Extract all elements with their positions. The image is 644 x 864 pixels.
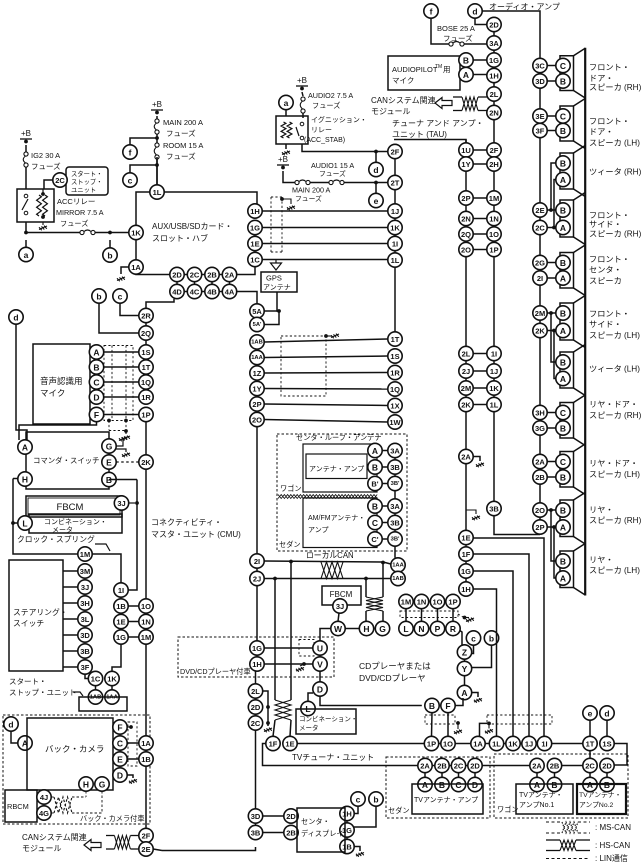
svg-text:3M: 3M <box>80 567 90 576</box>
wire E-1B <box>127 758 139 760</box>
node c CD <box>466 631 480 645</box>
svg-text:2A: 2A <box>535 458 545 467</box>
svg-text:2C: 2C <box>585 762 595 771</box>
svg-text:リヤ・ドア・: リヤ・ドア・ <box>589 400 638 409</box>
junction bc shield <box>129 725 133 729</box>
connector 2A <box>533 454 547 468</box>
svg-text:2D: 2D <box>602 762 612 771</box>
connector D <box>89 390 103 404</box>
pin A speaker <box>556 271 570 285</box>
node b mid <box>92 289 106 303</box>
connector 3B <box>388 460 402 474</box>
svg-text:1T: 1T <box>391 335 400 344</box>
junction c-tap <box>155 163 159 167</box>
node d <box>369 162 383 176</box>
pin C back camera <box>113 736 127 750</box>
connector 2E <box>533 203 547 217</box>
connector 1A TV row <box>471 736 485 750</box>
svg-text:3L: 3L <box>81 615 90 624</box>
node d TV <box>600 706 614 720</box>
wire speaker harness vertical <box>539 73 541 74</box>
junction TV shield <box>456 721 460 725</box>
fuse BOSE 25A <box>449 42 453 46</box>
connector 2C <box>533 220 547 234</box>
svg-text:スピーカ (LH): スピーカ (LH) <box>589 139 640 148</box>
wire 2A gnd <box>473 457 480 462</box>
leader start-stop <box>73 692 83 696</box>
connector 1M <box>487 191 501 205</box>
connector 1S TV row <box>600 736 614 750</box>
wire 2K long vertical <box>145 469 147 828</box>
wire A gnd <box>472 693 479 698</box>
svg-text:3B': 3B' <box>391 481 400 487</box>
connector 1AA <box>391 558 405 572</box>
connector 2Q <box>139 326 153 340</box>
svg-text:1X: 1X <box>390 402 399 411</box>
svg-text:2I: 2I <box>537 274 543 283</box>
svg-text:B: B <box>372 502 378 512</box>
shield dashed box CD <box>400 611 458 618</box>
wire c to 1H <box>354 806 358 814</box>
wire shield <box>125 421 127 432</box>
ignition relay coil <box>281 122 286 138</box>
svg-text:2P: 2P <box>461 194 470 203</box>
svg-text:a: a <box>24 250 29 260</box>
connector 3H <box>533 405 547 419</box>
svg-text:1M: 1M <box>401 598 411 607</box>
svg-text:AM/FMアンテナ・: AM/FMアンテナ・ <box>308 514 365 522</box>
svg-text:バック・カメラ: バック・カメラ <box>45 744 104 754</box>
svg-text:1L: 1L <box>391 256 400 265</box>
connector 2P <box>459 191 473 205</box>
svg-text:1H: 1H <box>489 72 499 81</box>
svg-text:ストップ・ユニット: ストップ・ユニット <box>9 688 77 697</box>
wire <box>366 578 391 580</box>
svg-text:フロント・: フロント・ <box>589 211 630 220</box>
svg-text:フューズ: フューズ <box>319 169 346 178</box>
connector 4J RBCM <box>37 790 51 804</box>
svg-text:ディスプレイ: ディスプレイ <box>301 829 344 838</box>
svg-text:ROOM 15 A: ROOM 15 A <box>163 141 203 150</box>
svg-text:B: B <box>463 56 469 66</box>
svg-text:2K: 2K <box>535 327 545 336</box>
wire 4A to 5A <box>237 292 257 304</box>
wire <box>96 358 98 361</box>
svg-text:1A: 1A <box>473 740 483 749</box>
wire 1A to 2D <box>136 273 170 276</box>
pin D CD player <box>313 682 327 696</box>
node d back camera <box>4 717 18 731</box>
svg-text:1F: 1F <box>269 740 278 749</box>
connector A <box>18 440 32 454</box>
wire mic pair <box>104 351 139 353</box>
connector 1Y <box>250 381 264 395</box>
pin A tweeter <box>556 371 570 385</box>
wire steering stub <box>63 586 78 588</box>
wire <box>382 466 388 468</box>
wire TAU left column links <box>465 140 467 144</box>
connector 2D <box>170 267 184 281</box>
wire 1G-1K <box>262 227 388 229</box>
svg-text:1M: 1M <box>489 194 499 203</box>
pin C speaker <box>556 109 570 123</box>
connector 1AA <box>105 690 119 704</box>
pin L combination meter <box>301 701 315 715</box>
svg-text:H: H <box>22 475 28 485</box>
svg-text:1P: 1P <box>427 740 436 749</box>
svg-text:2O: 2O <box>252 416 262 425</box>
svg-text:フューズ: フューズ <box>166 151 196 161</box>
svg-text:1S: 1S <box>602 740 611 749</box>
svg-text:1N: 1N <box>489 215 499 224</box>
wire hub links <box>176 282 178 285</box>
connector 1H CD <box>459 582 473 596</box>
svg-text:2J: 2J <box>253 575 261 584</box>
svg-text:2D: 2D <box>172 271 182 280</box>
svg-text:1G: 1G <box>116 633 126 642</box>
ground shield <box>287 206 295 211</box>
svg-text:1L: 1L <box>492 740 501 749</box>
svg-text:1O: 1O <box>443 740 453 749</box>
svg-text:AUDIO2 7.5 A: AUDIO2 7.5 A <box>308 91 353 100</box>
box antenna amp sedan AM/FM <box>303 498 377 548</box>
wire 3B-2B <box>263 832 284 834</box>
svg-text:IG2 30 A: IG2 30 A <box>31 151 60 160</box>
wire 1H-1J <box>262 210 388 212</box>
wire <box>95 686 97 690</box>
wire 1K-1A <box>135 240 137 260</box>
connector 2D wagon <box>600 758 614 772</box>
svg-text:B: B <box>560 206 566 216</box>
svg-text:1K: 1K <box>107 675 117 684</box>
wire 1S to 2D <box>614 744 627 766</box>
svg-text:マイク: マイク <box>392 76 414 85</box>
connector 1M <box>399 594 413 608</box>
wire 1L-1T <box>394 267 396 332</box>
node f <box>123 145 137 159</box>
svg-text:フロント・: フロント・ <box>589 255 630 264</box>
junction b <box>108 231 112 235</box>
wire <box>394 235 396 237</box>
svg-text:+B: +B <box>21 129 31 138</box>
speaker フロント・サイド・スピーカ (RH) <box>560 200 574 237</box>
node e TV <box>583 706 597 720</box>
svg-text:1A: 1A <box>141 739 151 748</box>
svg-text:FBCM: FBCM <box>57 502 84 513</box>
svg-text:1E: 1E <box>461 534 470 543</box>
svg-text:B: B <box>372 463 378 473</box>
svg-text:チューナ アンド アンプ・: チューナ アンド アンプ・ <box>392 119 484 128</box>
svg-text:B: B <box>560 424 566 434</box>
connector 3M <box>78 564 92 578</box>
wire 1E to 1I bottom <box>473 538 544 736</box>
wire mic pair <box>104 414 139 416</box>
svg-text:L: L <box>22 519 27 529</box>
connector 2F <box>487 143 501 157</box>
wire CMU vertical <box>256 427 258 554</box>
wire 2A to 1C <box>237 267 255 275</box>
svg-text:2D: 2D <box>489 21 499 30</box>
wire d-1S <box>606 720 608 736</box>
pin U CD player <box>313 641 327 655</box>
wire sedan links <box>432 765 435 767</box>
connector 1P TV row <box>424 736 438 750</box>
svg-text:A: A <box>463 70 469 80</box>
connector 2N <box>459 211 473 225</box>
svg-text:フロント・: フロント・ <box>589 310 630 319</box>
wire <box>25 145 27 152</box>
svg-text:1F: 1F <box>462 550 471 559</box>
junction L <box>11 521 15 525</box>
wire <box>382 450 388 452</box>
wire 1C-1L <box>262 259 388 261</box>
node c display <box>351 792 365 806</box>
svg-text:d: d <box>472 7 477 17</box>
connector 1K <box>487 381 501 395</box>
connector 3A <box>388 443 402 457</box>
svg-text:2E: 2E <box>535 206 544 215</box>
svg-text:MAIN 200 A: MAIN 200 A <box>292 186 331 195</box>
svg-text:B: B <box>560 258 566 268</box>
connector G <box>102 439 116 453</box>
svg-text:コマンダ・スイッチ: コマンダ・スイッチ <box>33 456 100 465</box>
ground shield small <box>296 667 304 672</box>
svg-text:2O: 2O <box>461 246 471 255</box>
junction 2D <box>266 705 270 709</box>
connector 1G CMU bottom <box>250 641 264 655</box>
box FBCM 2 <box>322 586 361 605</box>
connector 2O <box>533 503 547 517</box>
svg-text:GPS: GPS <box>266 274 282 283</box>
svg-text:3B: 3B <box>251 829 261 838</box>
svg-text:e: e <box>588 709 593 719</box>
junction e-tap <box>374 181 378 185</box>
wire <box>589 773 591 778</box>
svg-text:V: V <box>317 660 323 670</box>
svg-text:リレー: リレー <box>311 127 332 134</box>
wire <box>547 427 556 429</box>
wire c to Z <box>472 645 474 654</box>
pin B sedan amp <box>435 777 449 791</box>
wire 2E to 3B <box>162 850 253 852</box>
wire B right <box>109 479 137 481</box>
wire <box>310 182 329 184</box>
svg-text:1J: 1J <box>490 367 498 376</box>
connector 1H <box>248 204 262 218</box>
connector 1AB <box>250 335 264 349</box>
wire steering stub <box>63 666 78 668</box>
wire steering stub <box>63 570 78 572</box>
svg-text:a: a <box>284 98 289 108</box>
svg-text:1K: 1K <box>131 229 141 238</box>
svg-text:2C: 2C <box>251 719 261 728</box>
svg-text:3B: 3B <box>390 463 400 472</box>
connector 2R <box>139 308 153 322</box>
wire 1F to 1J bottom <box>473 554 529 736</box>
wire <box>111 686 113 690</box>
connector 2A <box>222 267 236 281</box>
wire W-H <box>345 628 359 630</box>
svg-text:スピーカ (RH): スピーカ (RH) <box>589 83 642 92</box>
shield dashed box upper <box>270 197 272 252</box>
shield dashed box mic <box>104 346 133 421</box>
wire <box>42 222 44 225</box>
svg-text:3B: 3B <box>390 519 400 528</box>
svg-text:3J: 3J <box>117 499 125 508</box>
node c mid <box>113 289 127 303</box>
connector 1I <box>388 236 402 250</box>
wire <box>547 461 556 463</box>
wire <box>156 158 158 186</box>
connector 1C <box>248 252 262 266</box>
svg-text:DVD/CDプレーヤ付車: DVD/CDプレーヤ付車 <box>180 667 251 676</box>
svg-text:センタ・ルーフ・アンテナ: センタ・ルーフ・アンテナ <box>296 433 382 442</box>
connector 2M <box>533 306 547 320</box>
wire U-V <box>319 655 321 657</box>
svg-text:2B: 2B <box>437 762 447 771</box>
wire <box>255 671 257 684</box>
svg-text:D: D <box>93 393 99 403</box>
speaker ツィータ (RH) <box>560 153 574 189</box>
wire F to A side <box>19 422 97 441</box>
svg-text:リヤ・ドア・: リヤ・ドア・ <box>589 459 638 468</box>
svg-text:TVアンテナ・: TVアンテナ・ <box>519 791 563 799</box>
junction mic shield 1 <box>107 419 111 423</box>
svg-text:A: A <box>560 223 566 233</box>
svg-text:RBCM: RBCM <box>7 802 29 811</box>
wire <box>547 65 556 67</box>
junction mic shield 2 <box>124 419 128 423</box>
connector 1T TV row <box>583 736 597 750</box>
wire b to 2Q <box>99 303 139 333</box>
connector 2D display2 <box>248 700 262 714</box>
pin A tweeter <box>556 571 570 585</box>
svg-text:C: C <box>560 408 566 418</box>
connector 3H <box>78 596 92 610</box>
svg-text:3H: 3H <box>535 409 545 418</box>
svg-text:2A: 2A <box>420 762 430 771</box>
arrow CAN bottom <box>84 840 101 851</box>
connector 1N <box>139 614 153 628</box>
wire A-1H <box>473 74 487 76</box>
connector 1J <box>388 204 402 218</box>
connector 1A back camera <box>139 736 153 750</box>
connector 1P <box>446 594 460 608</box>
svg-text:B: B <box>560 557 566 567</box>
svg-text:1B: 1B <box>116 602 126 611</box>
pin L CD player <box>399 621 413 635</box>
svg-text:C: C <box>560 112 566 122</box>
wire steering stub <box>63 634 78 636</box>
connector 1G display <box>340 823 354 837</box>
wire <box>554 773 556 778</box>
wire <box>120 613 122 614</box>
connector 2I <box>250 554 264 568</box>
svg-text:BOSE 25 A: BOSE 25 A <box>437 24 475 33</box>
pin A wagon amp <box>530 777 544 791</box>
connector 3J FBCM2 <box>333 599 347 613</box>
wire 1G to 1K bottom <box>473 571 513 736</box>
connector 2C display2 <box>248 716 262 730</box>
wire <box>547 115 556 117</box>
box TV antenna amp No2 <box>577 784 626 814</box>
wire 2L shield <box>263 691 268 726</box>
svg-text:4D: 4D <box>172 288 182 297</box>
svg-text:E: E <box>106 458 112 468</box>
connector 1I TV row <box>537 736 551 750</box>
wire 3J to junction <box>129 502 135 504</box>
wire <box>156 116 158 120</box>
pin B speaker <box>556 470 570 484</box>
wire dashed <box>51 812 54 814</box>
svg-text:1O: 1O <box>489 230 499 239</box>
svg-text:2N: 2N <box>461 215 471 224</box>
svg-text:センタ・: センタ・ <box>589 266 622 275</box>
svg-text:ローカルCAN: ローカルCAN <box>306 551 354 560</box>
junction a <box>24 231 28 235</box>
svg-text:1E: 1E <box>250 240 259 249</box>
svg-text:3E: 3E <box>535 112 544 121</box>
wire <box>382 522 388 524</box>
connector 1W <box>388 415 402 429</box>
svg-text:1T: 1T <box>142 363 151 372</box>
wire 5A loop <box>264 311 279 325</box>
divider hatched <box>278 495 377 499</box>
wire tweeter LH+ <box>551 313 556 362</box>
wire <box>302 113 304 118</box>
svg-text:A: A <box>422 780 428 790</box>
svg-text:音声認識用: 音声認識用 <box>40 376 83 386</box>
connector 1O <box>139 599 153 613</box>
wire <box>383 562 391 564</box>
pin G back camera <box>95 777 109 791</box>
svg-text:2C: 2C <box>454 762 464 771</box>
pin B speaker <box>556 203 570 217</box>
svg-text:アンテナ・アンプ: アンテナ・アンプ <box>309 465 364 473</box>
wire <box>547 227 556 229</box>
box antenna amp <box>306 454 367 479</box>
svg-text:1K: 1K <box>390 224 400 233</box>
connector 1L <box>487 397 501 411</box>
wire 2J to 1AB <box>264 578 366 580</box>
svg-text:3A: 3A <box>390 502 400 511</box>
connector 1G <box>248 220 262 234</box>
wire D to B <box>320 696 422 706</box>
connector 3F <box>78 660 92 674</box>
connector 3D display <box>248 809 262 823</box>
wire b <box>109 240 111 248</box>
connector 1AA <box>250 350 264 364</box>
svg-text:C: C <box>560 457 566 467</box>
connector 1F TV tuner <box>266 736 280 750</box>
svg-text:P: P <box>435 624 441 634</box>
wire <box>156 157 158 185</box>
speaker フロント・センタ・スピーカ <box>560 253 574 289</box>
svg-text:センタ・: センタ・ <box>301 817 330 826</box>
wire <box>125 431 127 434</box>
speaker ツィータ (LH) <box>560 352 574 388</box>
svg-text:(ACC_STAB): (ACC_STAB) <box>304 137 345 144</box>
svg-text:2C: 2C <box>535 224 545 233</box>
svg-text:L: L <box>403 624 408 634</box>
svg-text:A: A <box>22 443 28 453</box>
svg-text:フロント・: フロント・ <box>589 117 630 126</box>
ground G2 <box>122 453 130 458</box>
pin F back camera <box>113 720 127 734</box>
svg-text:1Y: 1Y <box>461 160 470 169</box>
connector 1Z <box>250 366 264 380</box>
svg-text:F: F <box>445 701 450 711</box>
